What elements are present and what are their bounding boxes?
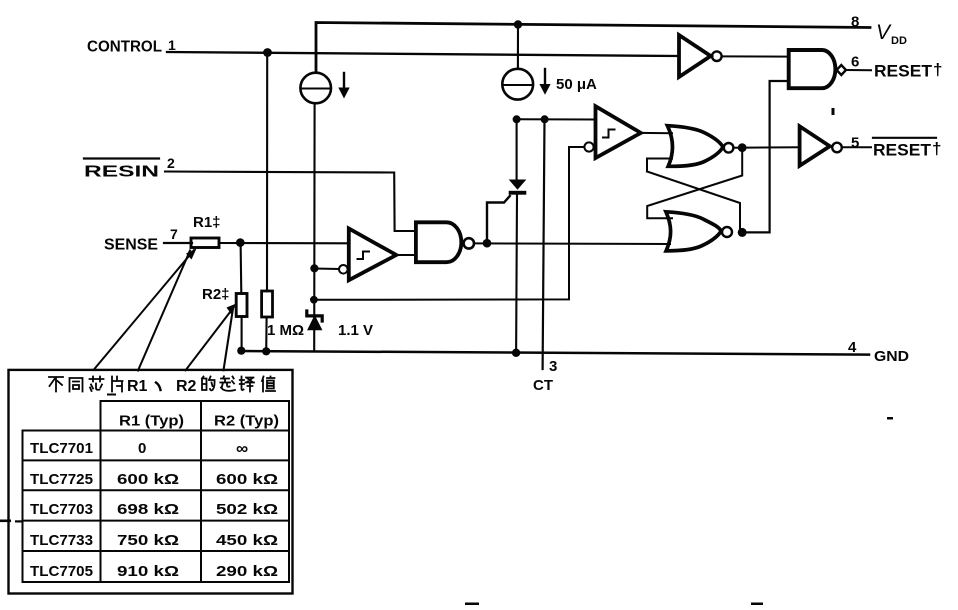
table row TLC7733	[30, 532, 278, 549]
scan speck above box	[107, 394, 116, 396]
svg-text:8: 8	[851, 14, 859, 31]
wire Vdd top rail	[316, 23, 870, 73]
nor gate U5	[666, 212, 732, 251]
char ZE	[240, 377, 254, 392]
wire R3 to GND rail	[265, 317, 267, 351]
junction CONTROL to 1M resistor	[263, 48, 272, 57]
thyristor Q1 cathode wire to GND rail	[515, 195, 518, 353]
scan speck bottom center	[465, 603, 479, 606]
resistor R3 1M body	[262, 291, 273, 317]
svg-text:TLC7705: TLC7705	[30, 563, 93, 580]
wire CONTROL line	[167, 52, 678, 56]
svg-text:600 kΩ: 600 kΩ	[216, 471, 278, 488]
current source I1	[300, 73, 349, 104]
table row TLC7725	[30, 471, 278, 488]
svg-text:50 μA: 50 μA	[556, 76, 597, 93]
node pin 4 GND label	[848, 339, 909, 365]
junction top rail to I2	[514, 20, 522, 28]
svg-text:5: 5	[851, 135, 859, 152]
svg-text:4: 4	[848, 339, 857, 356]
junction R2 GND rail	[237, 347, 245, 355]
wire RESIN to nand U2 top input	[165, 172, 416, 232]
wire 1.1V reference to U3 inverting input	[315, 147, 585, 300]
svg-text:502 kΩ: 502 kΩ	[216, 501, 278, 518]
thyristor Q1 anode wire	[516, 119, 518, 180]
char ZHI	[262, 377, 275, 392]
wire I2 node to schmitt U3 input	[517, 118, 596, 120]
schmitt trigger U3	[584, 106, 640, 158]
arrowhead at R1	[186, 249, 197, 260]
node pin 2 RESIN label with overline	[84, 155, 175, 181]
arrowhead at R2	[227, 304, 237, 315]
wire U7 output to nand U8 top input	[722, 55, 789, 57]
junction CT tap	[541, 115, 549, 123]
wire junction to R2	[240, 243, 243, 294]
junction SENSE R2	[236, 238, 245, 247]
current source I2 50uA	[502, 69, 550, 100]
wire CT down to pin 3	[543, 119, 545, 369]
wire SENSE to R1	[164, 242, 192, 244]
wire U2 output line	[474, 242, 670, 245]
svg-text:†: †	[932, 139, 941, 158]
svg-text:R2: R2	[176, 378, 197, 395]
resistor R1 body	[191, 238, 219, 248]
table grid	[23, 401, 290, 582]
table row TLC7703	[30, 501, 278, 518]
svg-text:V: V	[876, 21, 892, 44]
svg-text:TLC7733: TLC7733	[30, 532, 93, 549]
node pin 5 RESET label with overline	[842, 135, 942, 160]
char PIAN	[112, 377, 123, 392]
junction I2 SCR node	[513, 115, 521, 123]
wire U1 inverting input to reference	[314, 268, 339, 271]
svg-text:CONTROL: CONTROL	[87, 39, 162, 56]
svg-text:R2‡: R2‡	[202, 286, 230, 303]
svg-text:0: 0	[138, 440, 146, 457]
inverter U7	[679, 35, 722, 77]
svg-text:1 MΩ: 1 MΩ	[267, 322, 304, 339]
wire U4 output to inverter U6	[733, 146, 799, 149]
svg-text:TLC7701: TLC7701	[30, 440, 93, 457]
char XUAN	[220, 376, 235, 391]
char TONG	[70, 378, 83, 392]
junction U4 output	[738, 143, 747, 152]
svg-text:GND: GND	[874, 348, 909, 365]
leader line L2 from R1 to callout box	[138, 251, 190, 371]
svg-text:600 kΩ: 600 kΩ	[117, 471, 179, 488]
wire U4 bottom input step	[647, 159, 672, 172]
char DE	[202, 377, 215, 391]
svg-text:1.1 V: 1.1 V	[338, 322, 373, 339]
wire I1 down reference chain	[313, 104, 315, 352]
table row TLC7705	[30, 563, 278, 580]
wire latch cross D2 (U4 input from U5 output)	[647, 172, 740, 231]
svg-text:RESET: RESET	[873, 141, 932, 160]
resistor R3 1M wire from CONTROL	[266, 53, 268, 292]
resistor R2 body	[236, 294, 247, 317]
svg-text:2: 2	[167, 155, 175, 171]
node pin 3 CT label	[533, 358, 557, 394]
inverter U6	[800, 126, 842, 165]
callout title CJK strokes	[49, 376, 275, 395]
leader line L4 from R2 to callout box	[224, 307, 234, 371]
leader line L3 from R2 to callout box	[186, 308, 234, 371]
junction reference to schmitt U1 input	[310, 264, 318, 272]
callout box	[9, 370, 293, 594]
zener diode 1.1V	[307, 311, 322, 330]
table row TLC7701	[30, 439, 248, 458]
node pin 8 VDD label	[851, 14, 907, 48]
svg-text:6: 6	[851, 54, 859, 71]
svg-text:R1‡: R1‡	[193, 214, 221, 231]
svg-text:7: 7	[170, 226, 178, 242]
wire U5 output up to nand U8 bottom input	[742, 81, 789, 232]
svg-text:†: †	[933, 60, 942, 79]
junction R3 GND rail	[262, 347, 270, 355]
junction Q1 GND rail	[512, 349, 520, 357]
leader line L1 from R1 to callout box	[94, 250, 195, 370]
svg-text:1: 1	[168, 37, 176, 53]
svg-text:698 kΩ: 698 kΩ	[117, 501, 179, 518]
node pin 1 CONTROL label	[87, 37, 176, 56]
wire R1 to schmitt U1	[219, 242, 349, 244]
svg-text:RESET: RESET	[874, 62, 933, 81]
svg-text:∞: ∞	[236, 439, 248, 458]
scan speck near nand U8	[832, 108, 835, 115]
junction reference 1.1V node	[310, 296, 318, 304]
svg-text:R2 (Typ): R2 (Typ)	[214, 413, 279, 430]
wire latch cross D1 (U5 input from U4 output)	[647, 148, 742, 219]
current source I2 wire from rail	[517, 25, 519, 69]
svg-text:750 kΩ: 750 kΩ	[117, 532, 179, 549]
scan speck right mid	[887, 417, 893, 420]
wire U3 output to nor U4	[641, 132, 672, 134]
char BU	[49, 377, 63, 392]
wire GND rail	[240, 351, 869, 355]
svg-text:910 kΩ: 910 kΩ	[117, 563, 179, 580]
svg-text:450 kΩ: 450 kΩ	[216, 532, 278, 549]
node pin 6 RESET label	[847, 54, 943, 81]
svg-text:SENSE: SENSE	[104, 237, 158, 254]
svg-text:R1: R1	[127, 378, 148, 395]
thyristor Q1 gate wire	[487, 196, 510, 243]
svg-text:CT: CT	[533, 377, 553, 394]
node pin 7 SENSE label	[104, 226, 178, 254]
wire U1 output to nand U2	[396, 254, 416, 256]
thyristor Q1 body	[509, 180, 527, 195]
schmitt trigger U1	[339, 229, 396, 281]
svg-text:3: 3	[549, 358, 557, 375]
nand gate U2	[416, 222, 474, 262]
nand gate U8	[789, 50, 846, 88]
junction U2 output SCR gate	[483, 239, 492, 248]
svg-text:DD: DD	[891, 35, 907, 47]
svg-text:290 kΩ: 290 kΩ	[216, 563, 278, 580]
nor gate U4	[667, 126, 733, 167]
svg-text:TLC7725: TLC7725	[30, 471, 93, 488]
svg-text:R1 (Typ): R1 (Typ)	[119, 413, 184, 430]
junction U5 output	[738, 228, 747, 237]
svg-text:TLC7703: TLC7703	[30, 501, 93, 518]
scan speck bottom right	[751, 603, 763, 606]
scan speck left page edge	[0, 520, 11, 523]
ideographic comma	[156, 383, 161, 391]
wire R2 to GND rail	[241, 317, 243, 351]
char XIN	[90, 377, 104, 392]
svg-text:RESIN: RESIN	[84, 164, 159, 181]
